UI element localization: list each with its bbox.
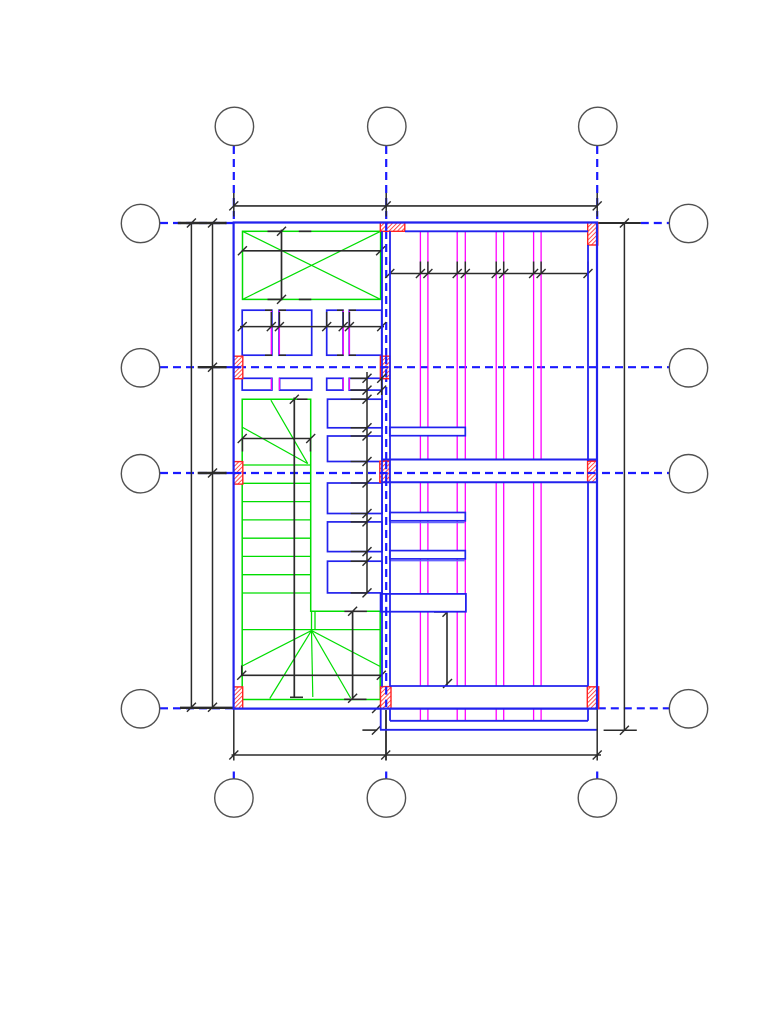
section arrow lower tick	[372, 726, 381, 735]
upper row dim tick	[345, 322, 354, 331]
middle black edge overlay a	[351, 482, 367, 484]
stair tread 4	[242, 519, 311, 521]
bottom band top line	[390, 685, 588, 687]
bottom dimension tick	[229, 751, 238, 760]
opening U4	[349, 310, 382, 355]
right room dim extension	[495, 262, 497, 274]
right wall inner lower	[587, 483, 589, 687]
right room dim tick	[584, 269, 593, 278]
upper row dim tick	[322, 322, 331, 331]
right room dim extension	[456, 262, 458, 274]
shaft edge black overlay bottom-left	[268, 298, 283, 300]
stair lower fan ray 2	[270, 631, 312, 699]
grid line 2 vertical dashed (top)	[385, 146, 387, 223]
middle black edge overlay a	[351, 521, 367, 523]
opening M1	[328, 399, 383, 428]
grid bubble C left	[121, 455, 159, 493]
column row B centre	[380, 356, 390, 379]
beam stub 2 under-line	[390, 522, 465, 524]
upper row dim tick	[339, 322, 348, 331]
column row D centre	[381, 687, 392, 709]
left dim tick row D inner	[208, 703, 217, 712]
middle black edge overlay b	[351, 461, 367, 463]
shaft section line	[281, 230, 283, 301]
left dim extension row D	[180, 707, 233, 709]
shaft diagonal 1	[243, 231, 381, 299]
centre wall row L tick a	[377, 374, 386, 383]
right room section line	[446, 612, 448, 686]
middle black edge overlay b	[351, 551, 367, 553]
middle dim tick b	[363, 423, 372, 432]
right room dim extension	[533, 262, 535, 274]
row C dash over centre column	[380, 472, 390, 474]
joist 5 stub segment	[495, 710, 497, 721]
right dim tick bottom	[620, 726, 629, 735]
bottom dimension line	[232, 754, 602, 756]
grid line 3 connector dash (bottom)	[596, 772, 598, 779]
joist 5 lower segment	[495, 483, 497, 687]
stair dim upper tick right	[306, 434, 315, 443]
stair dim upper tick left	[238, 434, 247, 443]
stair walk line	[293, 398, 295, 698]
grid 2 dash over row C column	[385, 461, 387, 482]
grid 3 bottom extension	[596, 687, 598, 761]
upper row dim tick	[275, 322, 284, 331]
joist 6 upper segment	[503, 231, 505, 459]
row C dash over right column	[588, 472, 598, 474]
joist 7 lower segment	[533, 483, 535, 687]
lower row black top overlay	[351, 377, 367, 379]
stair newel line 2	[314, 611, 316, 629]
joist 8 stub segment	[540, 710, 542, 721]
stair tread 3	[242, 501, 311, 503]
shaft diagonal 2	[243, 231, 381, 299]
right room dim extension	[503, 262, 505, 274]
right dim tick row A	[620, 219, 629, 228]
upper row dim extension	[278, 312, 280, 327]
stair landing tick bottom	[348, 694, 357, 703]
middle dim tick b	[363, 547, 372, 556]
middle dim tick b	[363, 509, 372, 518]
left dim tick row B	[208, 363, 217, 372]
column row C left	[233, 462, 243, 485]
row C dash over left column	[233, 472, 243, 474]
upper row dim extension	[270, 312, 272, 327]
stair tread 8	[242, 592, 311, 594]
grid line 2 dashed overlay on slab	[385, 594, 387, 612]
left dim tick row A inner	[208, 219, 217, 228]
grid bubble 2 bottom	[367, 779, 405, 817]
joist line left-zone upper 3	[342, 310, 344, 355]
joist 7 upper segment	[533, 231, 535, 459]
middle black edge overlay b	[351, 513, 367, 515]
right room dim tick	[492, 269, 501, 278]
left dim tick row C	[208, 469, 217, 478]
middle dim tick b	[363, 457, 372, 466]
stair top edge black overlay	[297, 398, 308, 400]
stair dim upper left stub	[241, 439, 243, 452]
stair outline	[242, 399, 380, 699]
left dim tick row D outer	[187, 703, 196, 712]
opening L4	[349, 378, 382, 390]
right room dim extension	[464, 262, 466, 274]
joist 3 stub segment	[456, 710, 458, 721]
column top grid2	[380, 223, 405, 231]
stair lower fan ray 3	[312, 631, 313, 698]
stair tread 6	[242, 555, 311, 557]
shaft edge black overlay top-left	[268, 230, 283, 232]
right wall outer	[596, 222, 598, 710]
opening U2	[279, 310, 312, 355]
grid 1 bottom extension	[233, 709, 235, 761]
stair dimension line lower	[241, 674, 381, 676]
bottom dimension tick	[593, 751, 602, 760]
grid line 2 vertical dashed (inside plan)	[385, 231, 387, 707]
grid bubble C right	[669, 455, 707, 493]
joist line left-zone lower 1	[270, 378, 272, 390]
row B dash over left column	[233, 366, 243, 368]
right dim extension bottom	[604, 729, 637, 731]
bottom band east return	[587, 709, 589, 721]
stair dim lower tick right	[377, 671, 386, 680]
middle dim tick a	[363, 557, 372, 566]
grid bubble D left	[121, 690, 159, 728]
shaft dim tick right	[376, 246, 385, 255]
bottom band west return	[389, 710, 391, 721]
right dim extension row A	[598, 222, 641, 224]
grid row C dashed line	[160, 472, 669, 474]
grid bubble 3 top	[579, 107, 617, 145]
left outer dimension line	[190, 223, 192, 708]
joist 1 upper segment	[419, 231, 421, 459]
grid bubble A left	[121, 204, 159, 242]
upper row black bottom overlay 1	[265, 354, 272, 356]
grid bubble 3 bottom	[578, 779, 616, 817]
left dim extension row A	[178, 222, 227, 224]
joist 6 stub segment	[503, 710, 505, 721]
right room dim tick	[385, 269, 394, 278]
grid bubble 1 top	[215, 107, 253, 145]
bottom dimension tick	[381, 751, 390, 760]
grid 2 bottom extension	[385, 710, 387, 761]
column top-right	[588, 222, 598, 245]
section arrow lower	[362, 729, 377, 731]
shaft edge black overlay bottom-right	[299, 298, 312, 300]
top dimension line	[234, 205, 597, 207]
upper row black bottom overlay 4	[349, 354, 356, 356]
grid 1 top extension	[233, 193, 235, 217]
grid bubble A right	[669, 204, 707, 242]
grid row D dashed right segment	[598, 707, 669, 709]
upper row black edge overlay 1	[265, 309, 272, 311]
joist line left-zone upper 4	[348, 310, 350, 355]
right room dim extension	[419, 262, 421, 274]
right room section top tick	[443, 608, 452, 617]
middle dim tick a	[363, 374, 372, 383]
opening U1	[242, 310, 272, 355]
stair lower fan ray 5	[312, 631, 381, 667]
opening U3	[327, 310, 343, 355]
stair upper fan ray 1	[271, 400, 308, 463]
stair dimension line upper	[242, 438, 311, 440]
opening L3	[327, 378, 343, 390]
joist line left-zone lower 4	[348, 378, 350, 390]
row C beam top line	[382, 459, 599, 461]
beam stub 3 under-line	[390, 560, 465, 562]
row B dash over centre column	[380, 366, 390, 368]
shaft section tick bottom	[277, 295, 286, 304]
stair dim lower left stub	[241, 665, 243, 675]
beam stub 1	[390, 427, 466, 435]
beam stub 2	[390, 513, 466, 521]
stair walk line top tick	[290, 395, 299, 404]
landing slab right of wall	[381, 594, 466, 612]
joist 7 stub segment	[533, 710, 535, 721]
stair landing section top overlay	[344, 610, 367, 612]
upper row dimension line	[240, 326, 384, 328]
stair dim lower tick left	[237, 671, 246, 680]
right room dim tick	[416, 269, 425, 278]
centre wall row L dim line	[381, 377, 383, 395]
right room dim tick	[499, 269, 508, 278]
grid 2 top extension	[385, 193, 387, 217]
upper row dim extension	[348, 312, 350, 327]
joist 4 stub segment	[464, 710, 466, 721]
shaft dimension line	[242, 250, 383, 252]
upper row dim extension	[342, 312, 344, 327]
middle rects dimension line	[366, 372, 368, 594]
stair tread 5	[242, 537, 311, 539]
joist 2 stub segment	[427, 710, 429, 721]
upper row dim extension	[326, 312, 328, 327]
joist line left-zone lower 3	[342, 378, 344, 390]
middle dim tick a	[363, 395, 372, 404]
upper row black bottom overlay 2	[279, 354, 286, 356]
stair newel line 1	[311, 611, 313, 629]
grid line 1 vertical dashed (top)	[233, 146, 235, 223]
right room dimension line	[389, 273, 588, 275]
top dimension tick	[229, 201, 238, 210]
top wall outer	[233, 221, 598, 223]
middle black edge overlay a	[351, 435, 367, 437]
row C beam bottom line	[382, 481, 599, 483]
stair walk line bottom stub	[290, 696, 303, 698]
grid line 3 vertical dashed (top)	[596, 146, 598, 223]
middle dim tick a	[363, 479, 372, 488]
stair landing line	[242, 629, 380, 631]
grid row A dashed left segment	[160, 222, 234, 224]
stair upper fan ray 2	[243, 427, 308, 463]
opening L2	[280, 378, 312, 390]
opening M5	[328, 561, 383, 593]
stair lower fan ray 1	[242, 631, 311, 667]
joist line left-zone upper 1	[270, 310, 272, 355]
right room dim tick	[537, 269, 546, 278]
stair dim upper right stub	[310, 439, 312, 452]
centre wall row L tick b	[377, 386, 386, 395]
left dim extension row C	[198, 472, 227, 474]
stair landing bottom overlay	[344, 698, 366, 700]
middle dim tick b	[363, 588, 372, 597]
shaft section tick top	[277, 227, 286, 236]
grid bubble D right	[669, 690, 707, 728]
right wall inner upper	[587, 245, 589, 461]
joist line left-zone lower 2	[278, 378, 280, 390]
upper row dim tick	[267, 322, 276, 331]
upper row black edge overlay 4	[349, 309, 356, 311]
joist 6 lower segment	[503, 483, 505, 687]
centre wall east line	[389, 231, 391, 686]
right room dim tick	[461, 269, 470, 278]
grid 2 dash over row B column	[385, 356, 387, 379]
grid bubble 1 bottom	[215, 779, 253, 817]
upper row black bottom overlay 3	[337, 354, 344, 356]
middle dim tick a	[363, 517, 372, 526]
middle black edge overlay b	[351, 592, 367, 594]
column row D left	[233, 687, 242, 709]
column row C right	[588, 461, 598, 482]
stair tread 2	[242, 482, 311, 484]
left dim extension row B	[198, 366, 227, 368]
upper row black edge overlay 2	[279, 309, 286, 311]
bottom wall outer	[233, 707, 598, 709]
right room dim tick	[453, 269, 462, 278]
grid line 2 connector dash (bottom)	[385, 772, 387, 779]
shaft edge black overlay top-right	[299, 230, 312, 232]
left inner dimension line	[212, 223, 214, 708]
right room dim extension	[427, 262, 429, 274]
grid bubble B right	[669, 349, 707, 387]
middle dim tick a	[363, 432, 372, 441]
joist 2 upper segment	[427, 231, 429, 459]
column row C centre	[380, 461, 390, 482]
grid row B dashed line	[160, 366, 669, 368]
column row B left	[233, 356, 243, 379]
grid row D dashed left segment	[160, 707, 233, 709]
joist 4 upper segment	[464, 231, 466, 459]
joist line left-zone upper 2	[278, 310, 280, 355]
joist 1 stub segment	[419, 710, 421, 721]
grid row A dashed right segment	[641, 222, 669, 224]
grid bubble 2 top	[368, 107, 406, 145]
upper row black edge overlay 3	[337, 309, 344, 311]
shaft dim tick left	[238, 246, 247, 255]
grid 2 dash over row D column	[385, 687, 387, 707]
right room dim tick	[529, 269, 538, 278]
upper row dim tick	[238, 322, 247, 331]
beam stub 3	[390, 551, 466, 559]
opening L1	[242, 378, 272, 390]
shaft opening outline	[243, 231, 381, 299]
stair tread 7	[242, 574, 311, 576]
stair landing tick top	[348, 607, 357, 616]
middle dim tick b	[363, 386, 372, 395]
middle black edge overlay a	[351, 560, 367, 562]
top wall inner (right part)	[405, 230, 588, 232]
top dimension tick	[593, 201, 602, 210]
opening M3	[328, 483, 383, 514]
terrace west edge	[380, 709, 382, 730]
right room dim extension	[540, 262, 542, 274]
right room section tick	[443, 679, 452, 688]
grid bubble B left	[121, 349, 159, 387]
joist 8 lower segment	[540, 483, 542, 687]
grid line 1 connector dash (bottom)	[233, 772, 235, 779]
section arrow upper tick	[372, 704, 381, 713]
right room dim extension	[389, 262, 391, 274]
bottom band inner line	[390, 720, 588, 722]
joist 4 lower segment	[464, 483, 466, 687]
top dimension tick	[382, 201, 391, 210]
upper row dim tick	[377, 322, 386, 331]
right dimension line	[623, 223, 625, 730]
joist 8 upper segment	[540, 231, 542, 459]
centre wall west line	[381, 231, 383, 686]
stair landing section line	[352, 611, 354, 699]
column row D right	[587, 687, 598, 709]
stair lower fan ray 4	[312, 631, 351, 699]
terrace edge line	[380, 729, 597, 731]
right room dim extension	[587, 262, 589, 274]
left dim tick row A outer	[187, 219, 196, 228]
middle black edge overlay b	[351, 427, 367, 429]
joist 1 lower segment	[419, 483, 421, 687]
opening M4	[328, 522, 383, 552]
lower row black bottom overlay	[351, 389, 367, 391]
joist 3 upper segment	[456, 231, 458, 459]
left wall outer	[233, 222, 235, 710]
right room section top overlay	[434, 611, 447, 613]
grid 3 top extension	[596, 193, 598, 217]
right room dim tick	[423, 269, 432, 278]
grid 2 dash over top column	[385, 223, 387, 231]
joist 3 lower segment	[456, 483, 458, 687]
stair tread 1	[242, 464, 311, 466]
middle black edge overlay a	[351, 398, 367, 400]
joist 2 lower segment	[427, 483, 429, 687]
section arrow upper	[362, 708, 377, 710]
joist 5 upper segment	[495, 231, 497, 459]
opening M2	[328, 436, 383, 462]
